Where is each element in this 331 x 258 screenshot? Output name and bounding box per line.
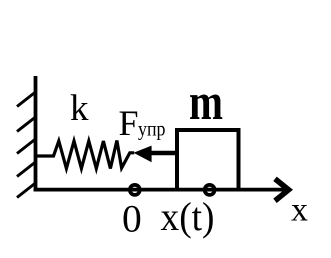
force arrow Fupr head	[134, 146, 152, 163]
spring k	[36, 141, 135, 169]
mass block m	[177, 130, 239, 190]
wall	[34, 76, 38, 191]
svg-text:0: 0	[122, 196, 142, 240]
x axis line	[34, 188, 287, 192]
wall hatch 4	[17, 162, 36, 177]
force arrow Fupr shaft	[150, 151, 178, 155]
svg-text:k: k	[70, 88, 89, 129]
origin marker circle	[130, 185, 140, 195]
svg-text:x(t): x(t)	[161, 194, 215, 239]
svg-text:m: m	[189, 74, 223, 131]
wall hatch 2	[17, 117, 36, 132]
svg-text:x: x	[291, 192, 308, 229]
svg-text:упр: упр	[138, 117, 166, 141]
axis arrowhead	[275, 179, 289, 201]
wall hatch 3	[17, 139, 36, 154]
wall hatch 5	[17, 183, 36, 198]
svg-text:F: F	[119, 103, 139, 143]
position marker circle	[205, 185, 215, 195]
wall hatch 1	[17, 92, 36, 107]
